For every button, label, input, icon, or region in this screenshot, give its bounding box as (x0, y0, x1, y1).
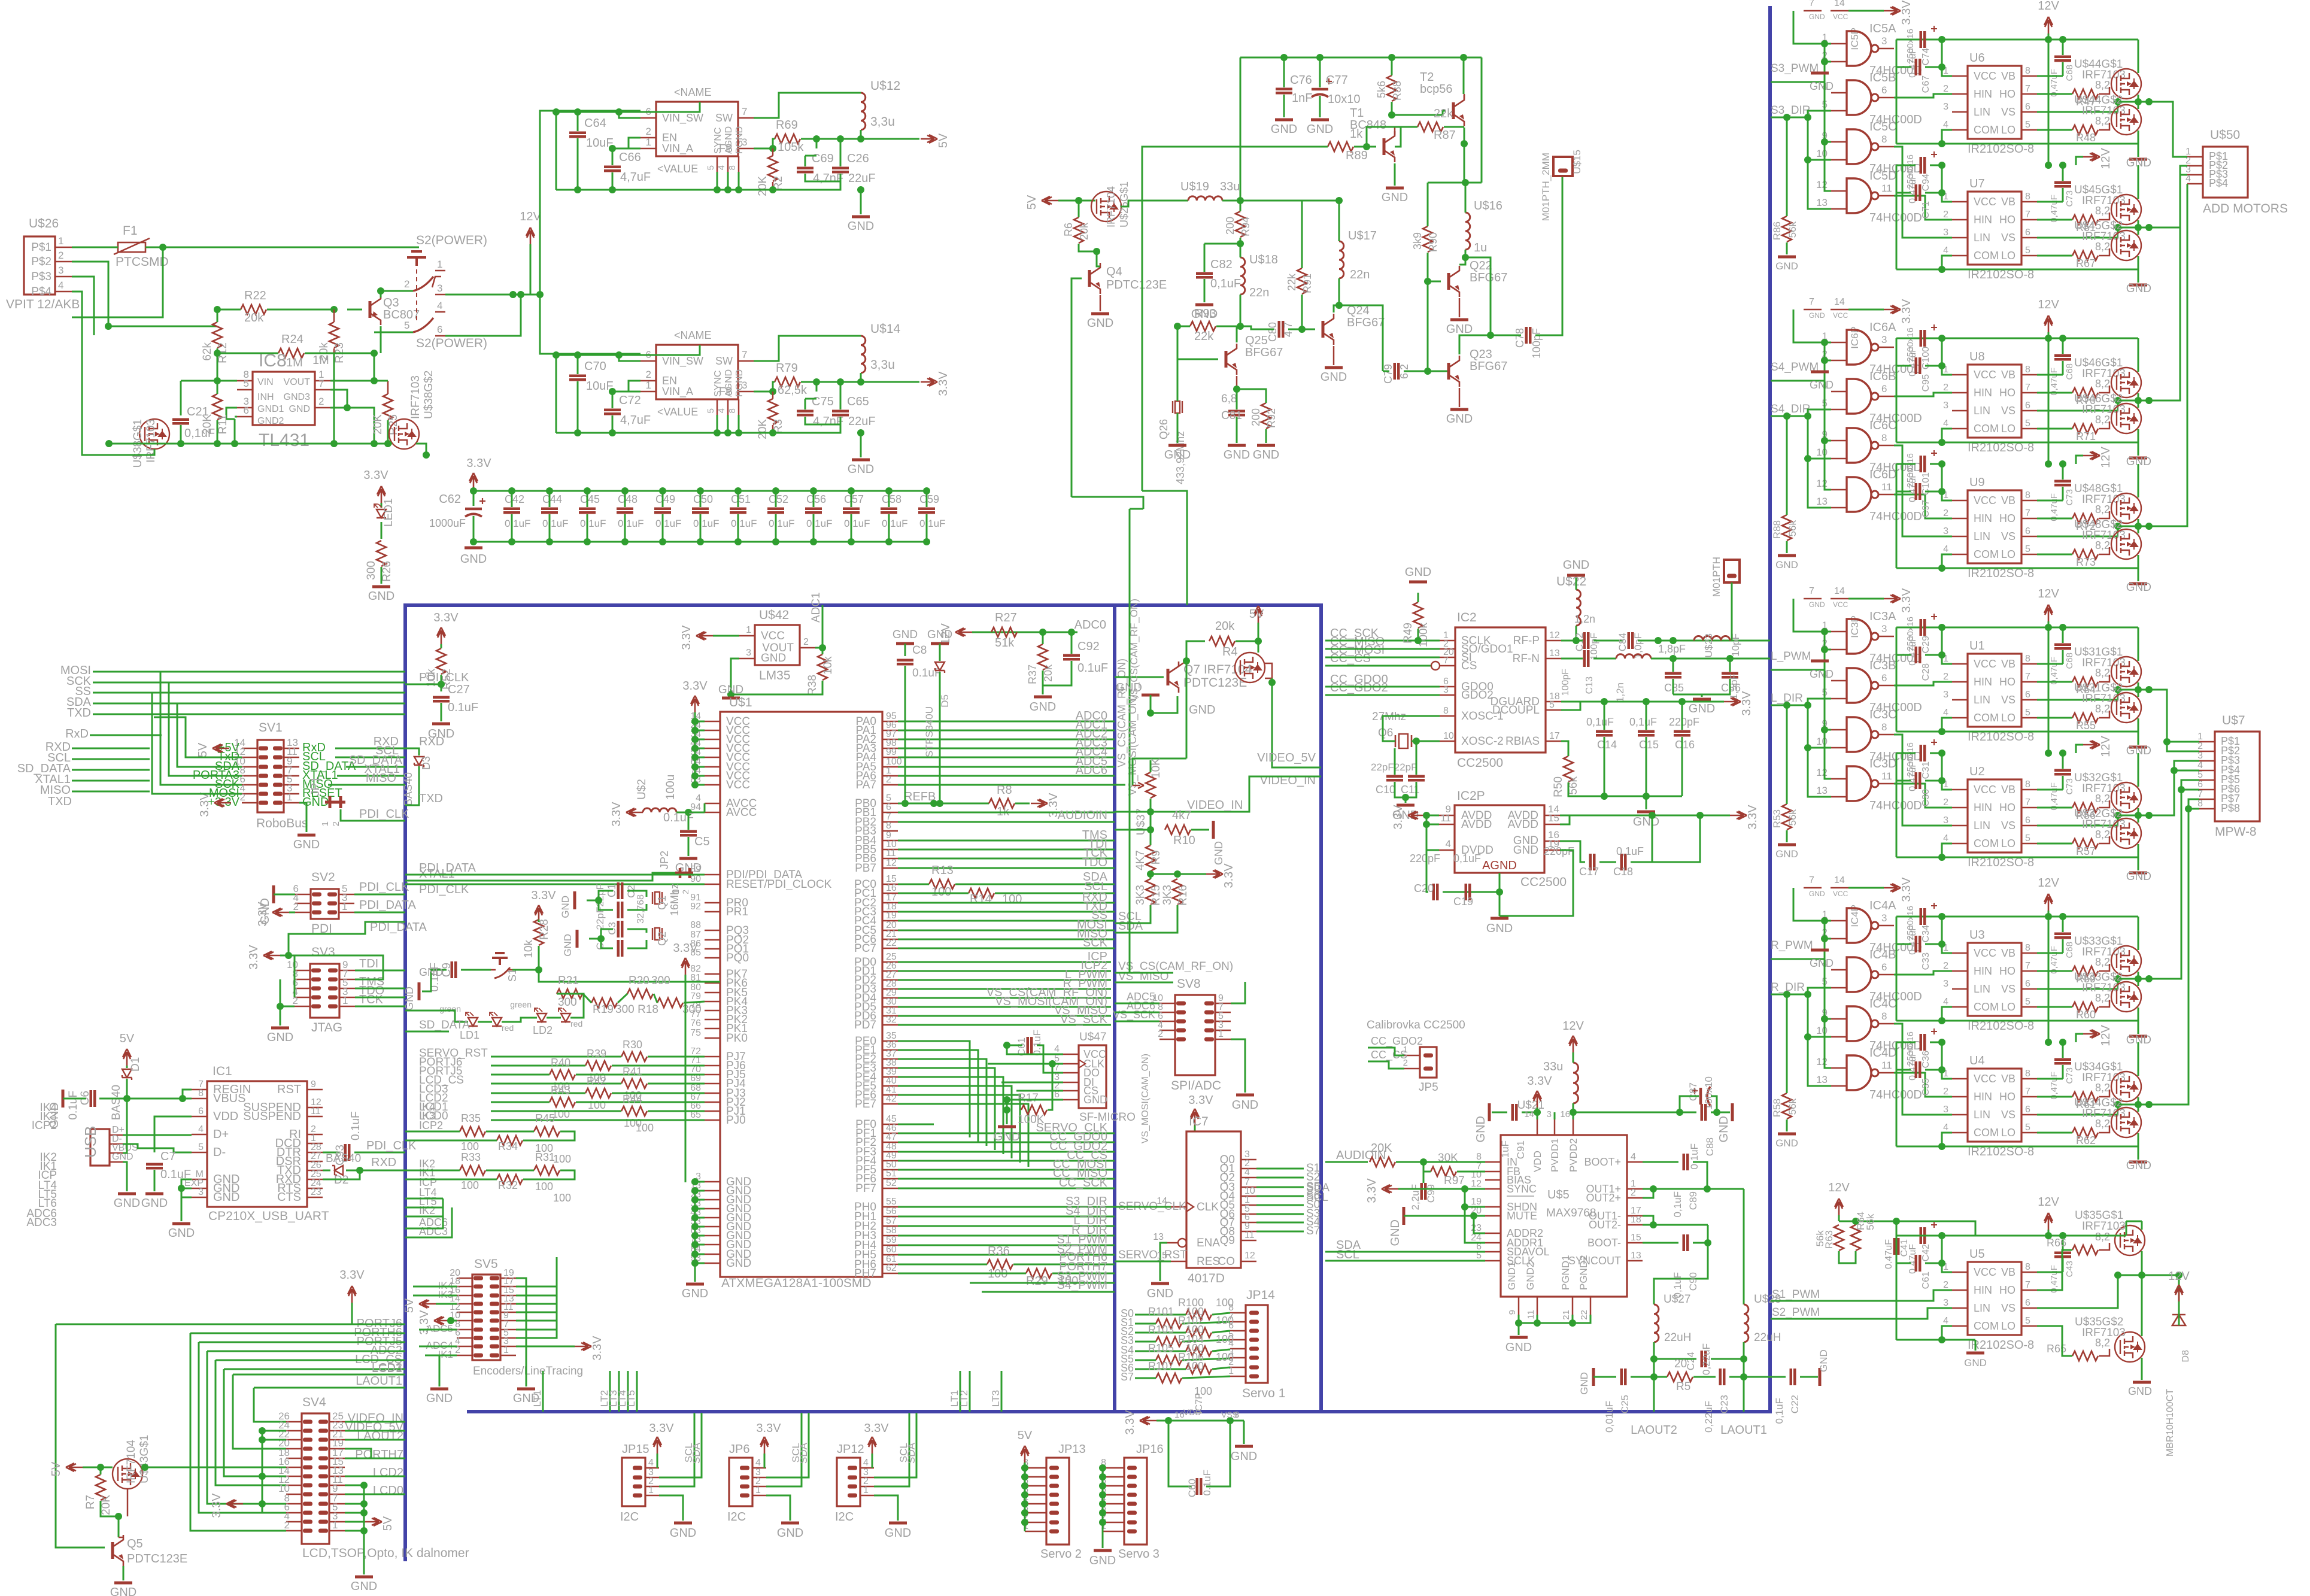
svg-text:55: 55 (886, 1197, 897, 1207)
ground AGND (1491, 917, 1508, 920)
transistor U$43G$1 IRF7104 power switch (113, 1459, 142, 1489)
supply 3.3V arrow divider (1206, 870, 1223, 878)
wire U5 com rail (1896, 1339, 1975, 1341)
svg-text:7: 7 (2025, 797, 2030, 808)
svg-text:20K: 20K (1371, 1142, 1392, 1155)
svg-text:GND: GND (1775, 559, 1798, 571)
transistor U$25G$1 IRF7104 (1091, 192, 1121, 222)
wire driver vcc (1942, 1042, 1952, 1079)
inductor U$14 3,3u (861, 336, 866, 373)
svg-text:S2(POWER): S2(POWER) (416, 233, 487, 247)
svg-text:R26: R26 (381, 561, 393, 582)
resistor R5 20 (1667, 1372, 1693, 1382)
svg-text:12: 12 (1549, 630, 1560, 641)
svg-text:R31: R31 (535, 1151, 555, 1163)
svg-text:HIN: HIN (1974, 88, 1992, 100)
capacitor C72 4,7uF (604, 409, 621, 412)
node 12V junctions (509, 291, 517, 298)
svg-text:2: 2 (1943, 508, 1948, 518)
capacitor C7 0.1uF (146, 1163, 163, 1166)
capacitor C67 0,47uF (1915, 59, 1918, 75)
svg-text:R60: R60 (2076, 1009, 2096, 1021)
capacitor C49 0.1uF (654, 508, 671, 511)
svg-text:C23: C23 (1719, 1395, 1730, 1413)
svg-text:VCC: VCC (726, 779, 750, 791)
svg-text:VS_MOSI(CAM_ON): VS_MOSI(CAM_ON) (1140, 1054, 1151, 1143)
svg-text:0,47uF: 0,47uF (2049, 946, 2059, 974)
wire AGND down (1499, 873, 1501, 916)
ground USB (123, 1162, 127, 1191)
svg-text:PTCSMD: PTCSMD (116, 255, 169, 269)
ground at SV1 (299, 803, 306, 832)
wire bank5 top rail (1839, 1221, 1975, 1236)
svg-text:100: 100 (588, 1099, 606, 1111)
svg-text:S3_DIR: S3_DIR (1771, 104, 1811, 117)
svg-text:U$17: U$17 (1348, 229, 1377, 242)
svg-text:GND: GND (1446, 323, 1473, 336)
svg-text:3: 3 (198, 1187, 204, 1197)
svg-text:C33: C33 (1921, 952, 1931, 970)
svg-text:S1_PWM: S1_PWM (1772, 1288, 1820, 1301)
resistor R55 8,2 (2072, 713, 2098, 723)
svg-text:VCC: VCC (1974, 196, 1996, 208)
svg-text:6: 6 (886, 802, 891, 812)
svg-text:GND2: GND2 (257, 416, 284, 426)
svg-text:<VALUE: <VALUE (657, 406, 698, 418)
ground audio bias (1403, 1207, 1406, 1225)
svg-text:0.1uF: 0.1uF (769, 518, 794, 529)
capacitor C64 10uF (569, 132, 586, 135)
svg-text:Servo 1: Servo 1 (1242, 1386, 1285, 1400)
svg-text:EN: EN (662, 375, 677, 387)
svg-text:R27: R27 (995, 611, 1017, 624)
ground at SV3 (277, 1003, 284, 1010)
ground (860, 433, 862, 457)
nand gate IC5C (1847, 129, 1871, 164)
wire driver vcc (1942, 627, 1952, 664)
supply 5V arrow Q7 (1254, 606, 1262, 623)
svg-text:8: 8 (2025, 66, 2030, 76)
ground SV5 right (516, 1278, 526, 1386)
svg-text:51k: 51k (995, 636, 1015, 650)
transistor U$31G$1 IRF7103 (2111, 657, 2141, 687)
svg-text:C75: C75 (812, 395, 834, 408)
ic power IC4P (1804, 887, 1822, 889)
svg-text:1: 1 (648, 1485, 654, 1495)
svg-text:I2C: I2C (835, 1510, 854, 1524)
transistor U$35G$1 IRF7103 (2115, 1225, 2145, 1255)
ic IC8 TL431 (253, 372, 315, 425)
wire mosfet2 chain (2141, 1275, 2143, 1336)
svg-text:VIDEO_IN: VIDEO_IN (1187, 799, 1243, 812)
ground antenna caps (1693, 698, 1711, 701)
wire gate crosslinks (1824, 82, 1826, 142)
svg-text:C42: C42 (505, 493, 524, 505)
svg-text:20k: 20k (1215, 620, 1235, 633)
svg-text:88: 88 (690, 920, 701, 930)
svg-text:SYNC: SYNC (713, 371, 723, 397)
svg-text:VS: VS (2001, 694, 2015, 706)
capacitor C17 220pF (1589, 854, 1592, 870)
svg-text:1,2n: 1,2n (1574, 613, 1595, 625)
svg-text:U$19: U$19 (1180, 180, 1209, 193)
svg-text:47: 47 (886, 1132, 897, 1142)
svg-text:COM: COM (1974, 712, 1999, 724)
transistor T1 BC848 (1383, 138, 1386, 155)
pin PJ7..PJ0 (705, 1056, 720, 1058)
svg-text:C73: C73 (2065, 489, 2075, 506)
svg-text:OUT2-: OUT2- (1589, 1219, 1621, 1231)
driver U3 IR2102SO-8 (1968, 943, 2021, 1016)
svg-text:6: 6 (2025, 102, 2030, 112)
svg-text:8: 8 (2025, 1069, 2030, 1079)
svg-text:0,01uF: 0,01uF (1604, 1401, 1615, 1433)
capacitor C13 100pF (1583, 650, 1586, 667)
nand gate IC3C (1847, 717, 1871, 752)
svg-text:20K: 20K (757, 176, 769, 196)
driver U8 IR2102SO-8 (1968, 365, 2021, 438)
wire com rail (1896, 269, 1942, 271)
svg-text:R6: R6 (1063, 223, 1074, 236)
svg-text:0.1uF: 0.1uF (693, 518, 719, 529)
svg-text:LT3: LT3 (990, 1390, 1001, 1407)
wire com rail (1896, 1146, 1942, 1148)
wire input rail (556, 102, 700, 112)
svg-text:C10: C10 (1376, 784, 1395, 796)
wire mosfet drain chain (2138, 753, 2139, 787)
resistor R61 8,2 (2072, 1092, 2098, 1102)
svg-text:HIN: HIN (1974, 802, 1992, 814)
resistor R92 200 (1261, 403, 1271, 429)
svg-text:TDI: TDI (359, 957, 378, 970)
svg-text:C48: C48 (618, 493, 638, 505)
ground (372, 585, 390, 588)
svg-text:8: 8 (2025, 654, 2030, 664)
svg-text:M01PTH_2MM: M01PTH_2MM (1540, 153, 1552, 221)
capacitor C33 0,47uF (1915, 936, 1918, 952)
svg-text:62k: 62k (201, 342, 214, 361)
capacitor C3 22pF (617, 921, 620, 937)
svg-text:3.3V: 3.3V (649, 1422, 674, 1435)
svg-text:11: 11 (1881, 183, 1892, 194)
svg-text:JP16: JP16 (1136, 1443, 1164, 1456)
resistor R51 8,2 (2072, 215, 2098, 224)
svg-text:JP1: JP1 (309, 776, 322, 796)
svg-text:LIN: LIN (1974, 106, 1990, 118)
supply 3.3V arrow R52 (437, 627, 445, 644)
svg-text:23: 23 (1471, 1223, 1482, 1233)
supply 12V small arrow (2083, 451, 2100, 460)
capacitor C60 0.1uF (1196, 1478, 1199, 1495)
svg-text:C5: C5 (694, 835, 710, 848)
svg-text:C73: C73 (2065, 778, 2075, 795)
resistor R70 8,2 (2072, 388, 2098, 398)
svg-text:0.1uF: 0.1uF (655, 518, 681, 529)
svg-text:12V: 12V (520, 210, 541, 223)
svg-text:U1: U1 (1969, 639, 1985, 653)
svg-text:12: 12 (1244, 1251, 1255, 1261)
svg-text:5: 5 (706, 408, 716, 413)
wire CLK DI CS nets (1049, 1060, 1056, 1067)
supply 3.3V SV8 (1191, 1109, 1199, 1125)
svg-text:LO: LO (2001, 712, 2015, 724)
resistor R13 100 (929, 879, 955, 889)
svg-text:HIN: HIN (1974, 214, 1992, 226)
ground mosfet (2129, 1161, 2147, 1164)
svg-text:R49: R49 (1402, 623, 1414, 644)
svg-text:4: 4 (2197, 760, 2203, 770)
svg-text:SCL: SCL (1336, 1248, 1359, 1261)
inductor U$16 1u (1465, 213, 1470, 250)
capacitor C11 22pF (1408, 775, 1425, 778)
svg-text:R93: R93 (1194, 307, 1216, 320)
svg-text:AGND: AGND (724, 126, 734, 154)
svg-text:3.3V: 3.3V (1392, 805, 1405, 830)
svg-text:7: 7 (318, 378, 324, 389)
svg-text:C57: C57 (844, 493, 864, 505)
ground R49 (1409, 581, 1427, 584)
svg-text:LCD3: LCD3 (372, 1361, 402, 1374)
connector JP16 Servo 3 (1124, 1458, 1147, 1545)
svg-text:8: 8 (198, 1088, 204, 1099)
svg-text:GND: GND (213, 1191, 239, 1204)
ground IC1 GND pins (181, 1179, 192, 1197)
wire OUT1+ OUT2+ (1643, 1188, 1744, 1190)
resistor R39 (585, 1061, 611, 1070)
svg-text:56k: 56k (1787, 222, 1798, 238)
resistor R91 22k (1297, 268, 1307, 294)
svg-text:BFG67: BFG67 (1245, 346, 1283, 359)
supply 5V arrow SV5 (419, 1300, 436, 1308)
svg-text:U$18: U$18 (1249, 253, 1278, 266)
svg-text:PDI_DATA: PDI_DATA (370, 921, 427, 934)
svg-text:U$50: U$50 (2210, 128, 2240, 142)
svg-text:HO: HO (1999, 214, 2015, 226)
svg-text:IC3C: IC3C (1869, 708, 1897, 721)
wire U$5 gnd rail (1518, 1315, 1520, 1335)
svg-text:10: 10 (1816, 1025, 1828, 1036)
svg-text:C81: C81 (1221, 409, 1242, 422)
svg-text:100pF: 100pF (1561, 669, 1571, 696)
svg-text:GND: GND (1321, 371, 1347, 384)
svg-text:12V: 12V (2038, 876, 2059, 890)
capacitor C65 22uF (832, 410, 849, 413)
svg-text:LIN: LIN (1974, 694, 1990, 706)
svg-text:5V: 5V (196, 742, 210, 757)
capacitor C19 0,1uF (1465, 884, 1468, 900)
resistor R23 20k (329, 322, 339, 348)
svg-text:BFG67: BFG67 (1347, 316, 1385, 329)
resistor R50 56k (1564, 756, 1573, 782)
svg-text:GND: GND (1089, 1554, 1116, 1567)
resistor R43 (550, 1097, 575, 1107)
svg-text:BAS40: BAS40 (402, 772, 414, 806)
svg-text:GND: GND (1505, 1341, 1532, 1354)
svg-text:8: 8 (1881, 432, 1887, 444)
svg-text:8: 8 (1881, 133, 1887, 145)
ground C76 (1275, 119, 1293, 122)
svg-text:VB: VB (2001, 658, 2015, 670)
svg-text:7: 7 (1809, 875, 1814, 885)
wire cap rail bottom (473, 541, 927, 543)
wire PDI_CLK from JP1 (341, 809, 405, 821)
wire gate outputs (1894, 682, 1952, 685)
svg-text:R7: R7 (84, 1495, 97, 1509)
svg-text:20k: 20k (244, 311, 264, 324)
svg-text:GND: GND (267, 1031, 293, 1044)
svg-text:P$1: P$1 (31, 241, 51, 254)
svg-text:14: 14 (1834, 875, 1845, 885)
svg-text:C17: C17 (1579, 866, 1599, 878)
svg-text:SDA: SDA (798, 1442, 809, 1464)
diode D3 BAS40 (414, 757, 424, 765)
svg-text:200: 200 (1250, 408, 1262, 426)
capacitor C41 0,47uF (1893, 1238, 1896, 1255)
svg-text:AVDD: AVDD (1461, 818, 1492, 831)
svg-text:3: 3 (1943, 979, 1948, 989)
inductor U$27 22uH (1654, 1304, 1659, 1342)
capacitor C91 1uF (1511, 1104, 1514, 1121)
svg-text:R107: R107 (1148, 1360, 1174, 1372)
resistor R42 (585, 1088, 611, 1098)
svg-text:CS: CS (1461, 660, 1477, 672)
svg-text:<NAME: <NAME (674, 86, 712, 98)
svg-text:C73: C73 (2065, 190, 2075, 207)
svg-text:R21: R21 (558, 975, 579, 987)
pin GND bottom U$5 (1518, 1297, 1520, 1315)
svg-text:2: 2 (1943, 1087, 1948, 1097)
capacitor C89 0,1uF (1683, 1154, 1686, 1170)
svg-text:2: 2 (331, 821, 341, 826)
svg-text:JP2: JP2 (658, 851, 670, 869)
transistor U$45G$2 IRF7103 (2111, 230, 2141, 260)
svg-text:2: 2 (58, 250, 63, 261)
svg-text:10: 10 (1443, 731, 1454, 741)
svg-text:IC6D: IC6D (1869, 468, 1897, 481)
supply 5V arrow RF (1042, 196, 1058, 205)
wire bank outputs to U$7 (2149, 690, 2199, 751)
svg-text:0,47uF: 0,47uF (2049, 782, 2059, 811)
svg-text:100: 100 (461, 1140, 479, 1152)
svg-text:VCC: VCC (1974, 1266, 1996, 1278)
svg-text:R65: R65 (2047, 1343, 2066, 1355)
capacitor C74b bootstrap 0,47uF (2054, 56, 2071, 59)
svg-text:RXD: RXD (371, 1156, 396, 1169)
svg-text:12V: 12V (1562, 1020, 1584, 1033)
svg-text:R89: R89 (1346, 149, 1368, 162)
capacitor C44 0.1uF (541, 508, 558, 511)
svg-text:0.1uF: 0.1uF (882, 518, 907, 529)
svg-text:6: 6 (2025, 690, 2030, 700)
svg-text:1: 1 (746, 625, 751, 635)
svg-text:300: 300 (365, 561, 378, 580)
transistor Q5 PDTC123E (111, 1542, 114, 1559)
svg-text:IK2: IK2 (419, 1204, 435, 1216)
svg-text:8,2: 8,2 (2095, 115, 2110, 127)
svg-text:SUSPEND: SUSPEND (243, 1110, 301, 1123)
svg-text:R8: R8 (997, 784, 1012, 797)
svg-text:C51: C51 (731, 493, 751, 505)
capacitor C42 0,47uF polarized (1920, 1227, 1923, 1244)
svg-text:4: 4 (863, 1458, 869, 1468)
svg-text:3: 3 (1943, 815, 1948, 826)
svg-text:IRF7104: IRF7104 (1105, 186, 1117, 227)
svg-text:3,3u: 3,3u (870, 115, 895, 129)
svg-text:33u: 33u (1220, 180, 1240, 193)
wire mosfet drain chain (2138, 917, 2139, 950)
svg-text:7: 7 (2025, 1087, 2030, 1097)
svg-text:R15: R15 (1150, 885, 1162, 906)
svg-text:R53: R53 (1771, 809, 1783, 828)
svg-text:IC7P: IC7P (1194, 1392, 1204, 1414)
svg-text:VCC: VCC (1974, 947, 1996, 959)
resistor R45 100 (534, 1127, 560, 1136)
svg-text:C97: C97 (1921, 500, 1931, 517)
svg-text:0,1uF: 0,1uF (1774, 1398, 1785, 1424)
svg-text:2500x16: 2500x16 (1905, 906, 1916, 940)
svg-text:U$2: U$2 (636, 779, 648, 800)
svg-text:2: 2 (1943, 961, 1948, 971)
svg-text:M01PTH: M01PTH (1711, 557, 1722, 597)
inductor U$22 1,2n (1576, 590, 1581, 626)
svg-text:GND: GND (848, 220, 874, 233)
wire gate input bus A (1824, 44, 1826, 82)
svg-text:7: 7 (2025, 210, 2030, 220)
svg-text:VB: VB (2001, 70, 2015, 82)
svg-text:R88: R88 (1771, 520, 1783, 539)
wire vbat to fuse and switch (72, 247, 118, 248)
svg-text:4: 4 (1943, 120, 1948, 130)
capacitor C61b 0,47uF (1915, 1255, 1918, 1272)
svg-text:R92: R92 (1265, 408, 1277, 428)
svg-text:3.3V: 3.3V (1527, 1075, 1552, 1088)
ground audio left (1488, 1103, 1491, 1121)
resistor R87 22k (1417, 122, 1443, 132)
svg-text:100: 100 (553, 1153, 571, 1165)
wire JP16 common (1102, 1468, 1104, 1531)
svg-text:14: 14 (1524, 1109, 1534, 1119)
svg-text:Q1: Q1 (656, 896, 668, 910)
svg-text:3: 3 (1943, 1298, 1948, 1308)
svg-text:XOSC-2: XOSC-2 (1461, 735, 1504, 748)
svg-text:8,2: 8,2 (2095, 378, 2110, 390)
svg-text:1,8pF: 1,8pF (1658, 643, 1686, 655)
svg-text:U$14: U$14 (870, 322, 901, 336)
capacitor C22 0,1uF (1790, 1369, 1793, 1385)
svg-text:COM: COM (1974, 548, 1999, 560)
svg-text:VS: VS (2001, 820, 2015, 832)
svg-text:IC6C: IC6C (1869, 419, 1897, 432)
resistor R28 10k (534, 920, 544, 945)
svg-text:GND: GND (419, 966, 443, 978)
supply 3.3V arrow SV5 right (575, 1342, 591, 1351)
capacitor C36b bootstrap 0,47uF (2054, 1058, 2071, 1061)
capacitor C52 0.1uF (767, 508, 784, 511)
svg-text:P$2: P$2 (31, 256, 51, 268)
ground R37 (1034, 696, 1052, 699)
svg-text:CP210X_USB_UART: CP210X_USB_UART (208, 1209, 329, 1223)
pin CO (1241, 1261, 1256, 1263)
supply 3.3V arrow JP6 (760, 1437, 769, 1454)
svg-text:R69: R69 (776, 119, 798, 132)
ground mosfet (2129, 284, 2147, 287)
svg-text:8: 8 (1443, 706, 1449, 716)
svg-text:GND: GND (1405, 566, 1431, 579)
svg-text:0,1uF: 0,1uF (1672, 1191, 1683, 1217)
svg-text:C16: C16 (1675, 739, 1695, 751)
svg-text:300: 300 (558, 996, 577, 1009)
svg-text:R39: R39 (587, 1048, 606, 1060)
